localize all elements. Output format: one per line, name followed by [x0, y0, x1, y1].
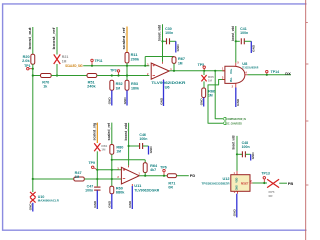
- sheet border zone tick 3: [306, 184, 309, 186]
- svg-text:200k: 200k: [131, 57, 140, 61]
- crossed-out supervisor U10 pin (DNP): [30, 197, 36, 202]
- wire R11 to rows: [126, 63, 128, 80]
- svg-text:boost_vdd: boost_vdd: [158, 25, 162, 41]
- svg-text:1M: 1M: [101, 148, 105, 152]
- testpoint TP5: [203, 66, 205, 68]
- svg-text:GND: GND: [108, 96, 112, 104]
- testpoint TP14: [266, 70, 268, 72]
- wire row3 left: [33, 178, 74, 180]
- svg-text:240k: 240k: [87, 85, 96, 89]
- wire U12 output: [253, 182, 268, 184]
- svg-text:scaled_ref: scaled_ref: [122, 26, 126, 49]
- svg-text:scaled_ref: scaled_ref: [107, 122, 111, 141]
- U6 power pin marks: [163, 62, 164, 81]
- junction TP9 branch: [96, 169, 98, 171]
- svg-text:GND: GND: [236, 185, 239, 190]
- wire row2: [97, 169, 121, 171]
- TP11 stub: [91, 62, 93, 66]
- wire C30 stub left: [163, 40, 167, 42]
- svg-text:SC_CHARGED: SC_CHARGED: [226, 122, 242, 126]
- wire C41 stub left: [236, 40, 240, 42]
- svg-text:1M: 1M: [75, 175, 80, 179]
- resistor R67: [172, 57, 176, 64]
- ground under U8: [235, 88, 237, 108]
- wire to R65: [203, 71, 205, 75]
- svg-text:GND: GND: [149, 145, 153, 153]
- comparator U8: [225, 66, 245, 83]
- svg-text:boost_vdd: boost_vdd: [231, 26, 235, 41]
- svg-text:U12: U12: [223, 177, 230, 181]
- TP14 stub: [266, 73, 268, 75]
- sheet border right (dark red): [305, 0, 307, 240]
- svg-text:1M: 1M: [116, 149, 121, 153]
- ground under U12: [236, 194, 238, 218]
- junction feedback/rowA: [144, 65, 146, 67]
- svg-text:boost_ref: boost_ref: [52, 26, 56, 49]
- crossed-out supervisor U10 (DNP): [30, 192, 36, 197]
- resistor R66: [202, 88, 206, 98]
- wire C30 stub right: [170, 40, 176, 42]
- testpoint TP9: [92, 166, 94, 168]
- wire R75 to PB: [279, 182, 287, 184]
- wire feedback left down: [144, 57, 146, 66]
- svg-text:MAX6806ACLR: MAX6806ACLR: [38, 199, 60, 203]
- capacitor C47: [94, 186, 100, 188]
- U8 bottom power pin: [235, 83, 237, 87]
- resistor R60: [110, 186, 114, 194]
- wire C48 stub right: [245, 153, 250, 155]
- svg-text:GND: GND: [108, 200, 112, 208]
- junction C41 tap: [235, 40, 237, 42]
- sheet border zone tick 1: [306, 63, 309, 65]
- svg-text:GND: GND: [93, 200, 97, 208]
- U6 pin marks: [153, 64, 155, 76]
- capacitor C30: [166, 38, 168, 44]
- junction TP13/output: [263, 182, 265, 184]
- ground under U11: [131, 186, 133, 209]
- crossed-out resistor R21 (DNP): [54, 54, 61, 64]
- testpoint TP11: [91, 59, 93, 61]
- ground at C48: [250, 154, 252, 160]
- svg-text:GND: GND: [252, 44, 256, 52]
- junction C30 tap: [161, 40, 163, 42]
- junction R64/output: [144, 175, 146, 177]
- wire bottom feedback row: [112, 159, 145, 161]
- wire orange R11 feed: [126, 27, 128, 53]
- TP5 stub: [203, 69, 205, 71]
- junction TP3/rowB: [117, 74, 119, 76]
- svg-text:TPS3839G33DBZR: TPS3839G33DBZR: [202, 182, 231, 186]
- wire row A: [83, 65, 149, 67]
- svg-text:boost_vdd: boost_vdd: [124, 123, 128, 141]
- capacitor C48: [241, 151, 243, 157]
- svg-text:TP6: TP6: [160, 166, 167, 170]
- svg-text:1M: 1M: [116, 86, 121, 90]
- wire R65 to R66: [203, 81, 205, 88]
- svg-text:680k: 680k: [116, 190, 125, 194]
- wire U11 output: [139, 175, 167, 177]
- ground at C30: [175, 41, 177, 52]
- svg-text:1M: 1M: [208, 79, 212, 83]
- junction R67/output: [173, 70, 175, 72]
- wire W1 upper: [32, 27, 34, 54]
- junction TP11/rowA: [91, 65, 93, 67]
- wire W1 lower: [32, 64, 34, 179]
- junction C48 tap: [236, 153, 238, 155]
- ground under R53: [126, 90, 128, 105]
- svg-text:R20: R20: [23, 55, 30, 59]
- svg-text:TP11: TP11: [95, 59, 103, 63]
- testpoint TP13: [263, 177, 265, 179]
- svg-text:1M: 1M: [208, 93, 213, 97]
- wire U12 vdd rail: [236, 136, 238, 171]
- svg-text:TP3: TP3: [110, 69, 117, 73]
- wire W2 lower: [56, 64, 58, 76]
- wire U8 vdd rail: [235, 26, 237, 63]
- resistor R11: [125, 52, 129, 63]
- resistor R52: [110, 80, 114, 90]
- svg-text:IN-: IN-: [230, 77, 233, 82]
- ground at C41: [250, 41, 252, 53]
- svg-text:100n: 100n: [85, 188, 93, 192]
- svg-text:TLV9062IDGKR: TLV9062IDGKR: [134, 189, 160, 193]
- junction comparator_in branch: [214, 70, 216, 72]
- junction R52/rowB: [111, 74, 113, 76]
- junction W2/rowB: [56, 74, 58, 76]
- resistor R53: [125, 80, 129, 90]
- junction R80/row1: [111, 159, 113, 161]
- ground under U10: [32, 203, 34, 212]
- svg-text:PD: PD: [190, 174, 196, 178]
- svg-text:boost_out: boost_out: [28, 26, 32, 49]
- wire R80 rail mid: [111, 154, 113, 186]
- resistor R64: [143, 163, 147, 173]
- svg-text:scaled_sig: scaled_sig: [92, 123, 96, 141]
- svg-text:1M: 1M: [62, 59, 67, 63]
- U11 pin marks: [123, 169, 125, 179]
- testpoint TP6: [163, 169, 165, 171]
- svg-text:GND: GND: [159, 97, 163, 105]
- resistor R47: [74, 177, 85, 181]
- op-amp U11: [121, 167, 139, 184]
- wire sc_charged route: [208, 80, 225, 124]
- wire below R81: [96, 151, 98, 186]
- wire feedback down: [144, 160, 146, 163]
- svg-text:SCALED_SIG: SCALED_SIG: [65, 64, 83, 68]
- wire U11 vdd rail: [128, 123, 130, 166]
- junction W1/row3: [32, 178, 34, 180]
- resistor R71: [167, 174, 176, 178]
- svg-text:TP9: TP9: [89, 161, 96, 165]
- U11 power pin marks: [129, 165, 133, 186]
- junction TP1/W1: [32, 68, 34, 70]
- junction orange-rail/row3: [96, 178, 98, 180]
- wire row B right: [97, 75, 150, 77]
- capacitor C41: [240, 38, 242, 44]
- junction R80/row2: [111, 169, 113, 171]
- wire U8 output: [248, 74, 292, 76]
- wire R64 to output: [144, 173, 146, 176]
- svg-text:GND: GND: [233, 208, 237, 216]
- hier label glyph COMPARATOR_IN: [223, 117, 226, 120]
- svg-text:COMPARATOR_IN: COMPARATOR_IN: [226, 117, 246, 121]
- junction R11/rowA: [126, 65, 128, 67]
- resistor R20: [31, 54, 35, 64]
- wire orange bottom rail: [96, 123, 98, 143]
- TP1 stub: [29, 68, 33, 70]
- ground under U6: [163, 80, 165, 106]
- TP13 stub: [263, 179, 265, 183]
- junction TP6/output: [163, 175, 165, 177]
- junction C46 tap: [128, 145, 130, 147]
- svg-text:4k7: 4k7: [150, 168, 156, 172]
- op-amp U6: [151, 63, 169, 79]
- U8 output pin mark: [245, 74, 248, 76]
- wire C46 stub left: [129, 145, 140, 147]
- supervisor U12 body: [231, 175, 250, 192]
- svg-text:100n: 100n: [242, 145, 250, 149]
- wire C46 stub right: [143, 145, 149, 147]
- svg-text:GND: GND: [128, 200, 132, 208]
- junction TP14/output: [266, 74, 268, 76]
- ground at C46: [148, 146, 150, 155]
- testpoint TP3: [117, 70, 119, 72]
- wire C48 stub left: [237, 153, 242, 155]
- TP6 stub: [163, 172, 165, 176]
- TP9 stub: [94, 168, 97, 170]
- junction R11/rowB: [126, 74, 128, 76]
- resistor R80: [110, 145, 114, 155]
- svg-text:100n: 100n: [240, 31, 248, 35]
- ground under R66: [203, 98, 205, 107]
- wire row B mid: [51, 75, 87, 77]
- junction W1/rowB: [32, 74, 34, 76]
- resistor R51: [87, 74, 97, 78]
- wire feedback top: [145, 56, 174, 58]
- svg-text:1k: 1k: [43, 85, 47, 89]
- capacitor C46: [139, 143, 141, 149]
- testpoint TP1: [27, 68, 29, 70]
- sheet border zone tick 2: [306, 120, 309, 122]
- wire R71 to PD: [177, 175, 189, 177]
- ground under R52: [111, 90, 113, 105]
- svg-text:180k: 180k: [131, 86, 139, 90]
- svg-text:GND: GND: [251, 151, 255, 159]
- wire U6 vdd rail: [162, 24, 164, 62]
- svg-text:DX: DX: [285, 72, 291, 76]
- junction TP5/output: [203, 70, 205, 72]
- wire U6 output: [169, 70, 225, 72]
- svg-text:TP13: TP13: [261, 171, 270, 175]
- U8 top power pin: [235, 63, 237, 67]
- crossed-out resistor R75 (DNP): [267, 179, 279, 187]
- junction R80/row3: [111, 178, 113, 180]
- resistor R70: [41, 74, 52, 78]
- crossed-out resistor R81 (DNP): [94, 143, 100, 151]
- wire W2 upper: [56, 27, 58, 55]
- svg-text:100n: 100n: [139, 137, 147, 141]
- svg-text:GND: GND: [176, 43, 180, 51]
- svg-text:RESET: RESET: [241, 181, 249, 185]
- wire row3 right: [84, 178, 121, 180]
- svg-text:GND: GND: [236, 98, 240, 106]
- U12 bottom pin: [237, 191, 239, 193]
- svg-text:100n: 100n: [165, 31, 173, 35]
- svg-text:1M: 1M: [178, 61, 183, 65]
- ground under C47: [96, 190, 98, 209]
- U8 input pin marks: [222, 71, 225, 80]
- U12 right pin: [250, 182, 253, 184]
- svg-text:2.0k: 2.0k: [22, 59, 30, 63]
- wire C41 stub right: [244, 40, 251, 42]
- hier label glyph SC_CHARGED: [223, 122, 226, 125]
- wire row B left: [33, 75, 41, 77]
- svg-text:VDD: VDD: [236, 177, 239, 182]
- svg-text:U6: U6: [165, 85, 170, 89]
- U12 top pin: [236, 171, 238, 175]
- crossed-out resistor R65 (DNP): [201, 75, 206, 81]
- TP3 stub: [118, 72, 120, 75]
- svg-text:U11: U11: [134, 184, 141, 188]
- wire R80 rail top: [111, 123, 113, 145]
- svg-text:IN+: IN+: [230, 68, 233, 74]
- svg-text:TP14: TP14: [271, 70, 280, 74]
- sheet border zone tick 0: [306, 22, 308, 24]
- svg-text:GND: GND: [29, 202, 33, 210]
- svg-text:PB: PB: [288, 182, 294, 186]
- wire comparator_in branch: [215, 71, 223, 119]
- svg-text:boost_vdd: boost_vdd: [232, 135, 236, 149]
- wire W1 to U10: [32, 179, 34, 192]
- ground under R60: [111, 194, 113, 209]
- svg-text:GND: GND: [200, 97, 204, 105]
- svg-text:GND: GND: [123, 96, 127, 104]
- svg-text:0R: 0R: [168, 185, 173, 189]
- wire R67 to output: [173, 63, 175, 70]
- svg-text:TLV3201AIDBVR: TLV3201AIDBVR: [242, 66, 259, 70]
